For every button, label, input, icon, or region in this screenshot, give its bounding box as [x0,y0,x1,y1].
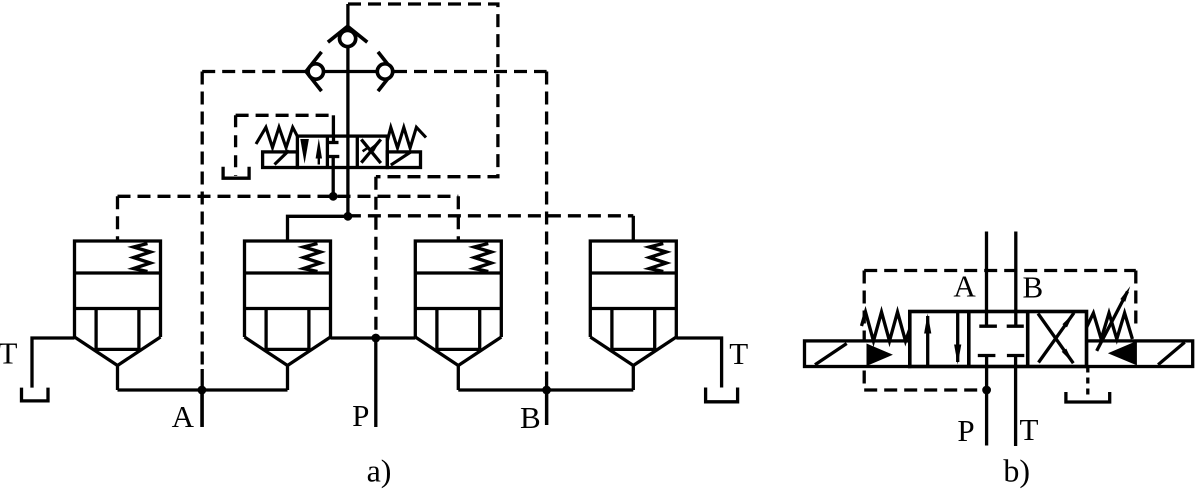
tank symbol left [22,388,49,401]
junction dot b P [982,386,991,395]
junction dot P [371,334,380,343]
svg-text:B: B [1023,270,1044,305]
spring b right adjustable [1087,313,1133,339]
valve b left position arrows [926,316,929,366]
wire valve 4 drain to tank [676,338,721,388]
pilot valve left position arrows [300,139,309,164]
wire B tail below junction [545,390,548,425]
check valve ball right [377,64,392,79]
wire shuttle horizontal line solid center [292,70,394,73]
wire B manifold horizontal [458,388,633,391]
wire b P line [978,354,996,357]
wire b drain dashed [1086,367,1089,400]
wire P pilot dashed vertical [374,177,377,338]
wire shuttle horizontal line dashed left [202,70,292,73]
solenoid pilot valve right [387,152,420,168]
wire solid link to valve 2 top [288,216,348,241]
svg-text:T: T [0,336,18,371]
wire valve 1 drain to tank [32,338,75,388]
proportional solenoid b right [1087,341,1193,367]
junction dot B [542,386,551,395]
wire pilot line 2 dashed horizontal [348,214,633,217]
wire P manifold horizontal [331,336,416,339]
svg-text:A: A [172,399,195,434]
wire shuttle horizontal line dashed right [394,70,547,73]
cartridge valve 2 [245,241,331,390]
wire b B line [1014,232,1017,327]
proportional solenoid b left [805,341,910,367]
pilot directional valve assembly [223,115,426,178]
figure b [805,232,1193,447]
wire b T line [1007,354,1024,357]
wire B dashed vertical [545,72,548,380]
wire P solid lower [374,338,377,427]
check valve ball top [340,30,356,46]
cartridge valve 1 [75,241,161,390]
spring pilot valve left [256,127,297,147]
wire A manifold horizontal [118,388,288,391]
wire A solid lower [201,369,204,427]
wire b dashed box bottom [864,388,986,391]
svg-text:B: B [520,400,541,435]
valve b right position crossed arrows [1038,314,1073,364]
wire pilot line 1 dashed to valve 1 top [116,196,119,241]
pilot valve center position blocked ports [332,136,335,142]
svg-text:P: P [957,413,974,448]
wire A dashed vertical [201,72,204,370]
check valve seat right [378,52,394,91]
svg-text:b): b) [1003,453,1030,489]
wire b dashed box top [864,269,1136,272]
svg-text:T: T [729,336,748,371]
wire pilot line 1 dashed horizontal [118,195,459,198]
wire B solid lower [545,379,548,425]
wire b A line [985,232,988,327]
svg-text:A: A [953,269,976,304]
check valve seat left [306,52,322,91]
check valve seat top [328,26,367,42]
tank symbol b drain [1066,392,1110,402]
check valve ball left [308,64,323,79]
wire solid link to valve 4 top [632,216,635,241]
pilot valve right position crossed arrows [361,139,381,163]
spring pilot valve right [387,127,426,148]
cartridge valve 3 [415,241,501,390]
wire b dashed box left [863,271,866,391]
wire b dashed box right [1134,271,1137,327]
junction dot pilot P-side [344,212,353,221]
wire main center line from shuttle valve down through pilot valve to junction [346,4,349,216]
svg-text:P: P [352,398,369,433]
wire pilot valve A-port up [332,115,335,136]
tank symbol right [706,388,738,402]
cartridge valve 4 [590,241,676,390]
junction dot A [198,386,207,395]
junction dot pilot A-side [329,192,338,201]
solenoid pilot valve left [263,152,298,168]
valve b body [910,312,1087,367]
wire pilot drain dashed box left [234,115,237,176]
svg-text:a): a) [367,453,392,489]
tank symbol pilot drain [223,167,249,179]
wire A tail below junction [200,390,203,427]
wire pilot drain dashed box top [236,114,334,117]
pilot valve body [297,136,387,167]
wire dashed top pilot rectangle [348,4,498,177]
spring b left [862,312,910,341]
wire pilot valve port down to junction [332,168,335,197]
svg-text:T: T [1020,412,1039,447]
wire pilot line 1 dashed to valve 3 top [457,196,460,241]
